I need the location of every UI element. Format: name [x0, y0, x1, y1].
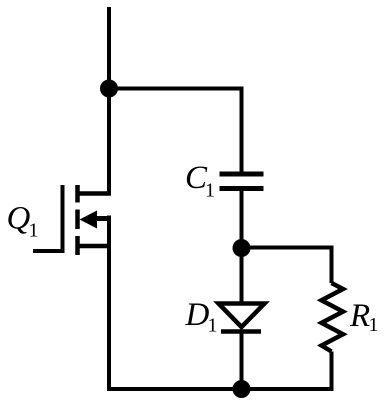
source connection	[78, 244, 112, 249]
diode D1	[219, 304, 265, 332]
channel bottom segment	[75, 236, 80, 255]
transistor Q1	[33, 185, 111, 391]
wire: top horizontal from node A to C1 branch	[107, 87, 242, 91]
label C1	[185, 160, 215, 202]
wire: top supply vertical into Q1 drain	[107, 7, 111, 194]
svg-text:1: 1	[29, 220, 39, 242]
channel middle segment	[75, 210, 80, 230]
label Q1	[7, 201, 39, 242]
label R1	[349, 298, 379, 336]
source vertical	[107, 216, 111, 392]
svg-text:1: 1	[369, 314, 379, 336]
channel top segment	[75, 185, 80, 203]
node C: bottom junction	[233, 380, 251, 398]
node B: junction of C1, D1, R1	[233, 239, 251, 257]
wire: D1 top lead	[240, 246, 244, 303]
body arrow head	[80, 211, 98, 229]
wire: node B horizontal to R1	[242, 246, 332, 250]
wire: R1 top lead	[330, 246, 334, 284]
wire: C1 bottom lead to node B	[240, 189, 244, 251]
wire: D1 bottom lead	[240, 332, 244, 390]
svg-text:Q: Q	[7, 201, 31, 237]
svg-text:D: D	[185, 297, 210, 333]
gate bar	[61, 185, 65, 253]
resistor R1	[322, 283, 344, 352]
body arrow tail	[93, 216, 111, 221]
wire: R1 bottom lead	[330, 352, 334, 392]
capacitor C1	[220, 174, 264, 189]
gate lead	[33, 249, 65, 253]
wire: bottom rail	[107, 387, 334, 391]
svg-text:1: 1	[208, 315, 218, 337]
drain connection	[78, 191, 112, 196]
node A: top junction	[100, 80, 118, 98]
wire: C1 top lead	[240, 87, 244, 175]
label D1	[185, 297, 218, 337]
svg-text:R: R	[349, 298, 370, 334]
svg-text:1: 1	[205, 180, 215, 202]
